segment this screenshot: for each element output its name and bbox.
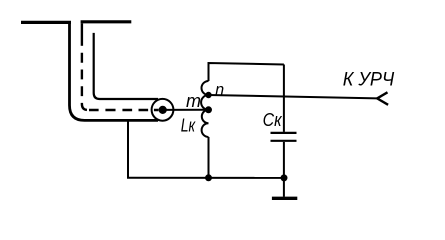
svg-text:n: n [215, 82, 224, 99]
svg-text:Lк: Lк [181, 115, 197, 135]
svg-text:Ск: Ск [263, 110, 283, 130]
svg-text:m: m [186, 91, 201, 111]
svg-text:К УРЧ: К УРЧ [343, 69, 395, 90]
